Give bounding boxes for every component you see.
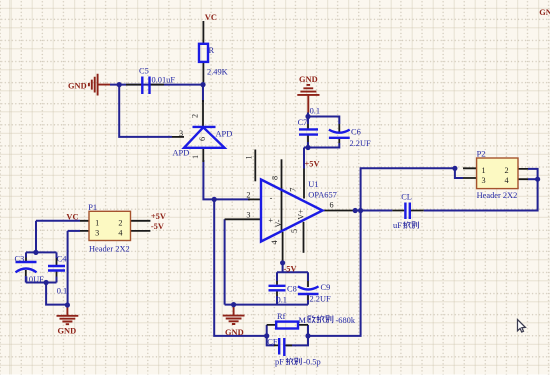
svg-text:4: 4 <box>118 229 122 238</box>
svg-text:GND: GND <box>68 82 87 91</box>
svg-text:OPA657: OPA657 <box>308 191 337 200</box>
svg-text:V-: V- <box>274 219 283 227</box>
svg-text:-: - <box>270 194 273 203</box>
svg-text:-0.5p: -0.5p <box>303 358 320 367</box>
svg-text:C9: C9 <box>321 283 331 292</box>
svg-text:4: 4 <box>270 240 279 244</box>
svg-text:C8: C8 <box>287 285 297 294</box>
svg-text:2.2UF: 2.2UF <box>310 295 332 304</box>
svg-text:Rf: Rf <box>277 312 286 321</box>
svg-text:1: 1 <box>191 155 200 159</box>
svg-text:6: 6 <box>198 137 207 141</box>
svg-text:1: 1 <box>95 219 99 228</box>
svg-text:C6: C6 <box>351 128 361 137</box>
svg-text:APD: APD <box>216 129 233 138</box>
svg-text:2: 2 <box>505 166 509 175</box>
svg-text:0.1: 0.1 <box>310 107 320 116</box>
svg-text:7: 7 <box>289 188 298 192</box>
svg-text:+5V: +5V <box>151 212 166 221</box>
svg-text:4: 4 <box>505 176 509 185</box>
svg-text:CF: CF <box>267 337 278 346</box>
svg-text:C3: C3 <box>15 255 25 264</box>
svg-text:3: 3 <box>179 129 183 138</box>
svg-text:P1: P1 <box>88 203 97 212</box>
svg-text:+5V: +5V <box>305 160 320 169</box>
svg-text:-5V: -5V <box>151 222 164 231</box>
svg-text:0.1: 0.1 <box>57 287 67 296</box>
svg-text:pF: pF <box>275 358 284 367</box>
svg-text:0.1: 0.1 <box>277 296 287 305</box>
svg-text:2: 2 <box>118 219 122 228</box>
svg-text:5: 5 <box>290 229 299 233</box>
svg-text:C5: C5 <box>139 67 149 76</box>
svg-text:8: 8 <box>271 176 280 180</box>
svg-text:GND: GND <box>299 75 318 84</box>
svg-text:10UF: 10UF <box>25 275 44 284</box>
svg-text:Header 2X2: Header 2X2 <box>477 191 518 200</box>
svg-text:1: 1 <box>482 166 486 175</box>
svg-text:APD: APD <box>173 148 190 157</box>
svg-text:3: 3 <box>482 176 486 185</box>
svg-text:VC: VC <box>66 213 78 222</box>
svg-text:2.2UF: 2.2UF <box>350 139 372 148</box>
svg-text:-680k: -680k <box>336 316 356 325</box>
svg-text:M: M <box>299 316 307 325</box>
svg-text:3: 3 <box>95 229 99 238</box>
svg-text:CL: CL <box>401 193 412 202</box>
svg-text:V+: V+ <box>297 209 306 220</box>
svg-text:1: 1 <box>245 155 254 159</box>
svg-text:GND: GND <box>539 8 550 17</box>
svg-text:2.49K: 2.49K <box>207 68 228 77</box>
svg-text:C7: C7 <box>298 118 308 127</box>
svg-text:3: 3 <box>246 211 250 220</box>
svg-text:0.01uF: 0.01uF <box>152 76 176 85</box>
svg-text:6: 6 <box>329 201 333 210</box>
svg-text:Header 2X2: Header 2X2 <box>89 244 130 253</box>
svg-text:VC: VC <box>205 13 217 22</box>
svg-text:2: 2 <box>246 191 250 200</box>
svg-text:C4: C4 <box>57 255 68 264</box>
svg-text:GND: GND <box>58 327 77 336</box>
svg-text:U1: U1 <box>308 180 318 189</box>
svg-text:GND: GND <box>225 328 244 337</box>
svg-text:P2: P2 <box>477 150 486 159</box>
svg-text:-5V: -5V <box>284 265 297 274</box>
svg-text:2: 2 <box>191 114 200 118</box>
svg-text:uF: uF <box>393 221 402 230</box>
svg-text:+: + <box>268 216 273 225</box>
svg-text:R: R <box>209 46 215 55</box>
